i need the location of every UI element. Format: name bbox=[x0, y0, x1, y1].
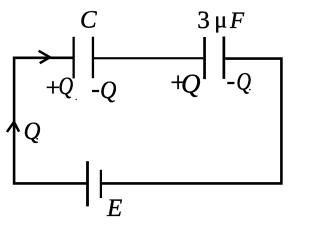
battery E right plate bbox=[100, 170, 102, 198]
svg-text:C: C bbox=[80, 6, 97, 33]
capacitor C1 right plate bbox=[92, 37, 94, 78]
speck at C2 right plate -Q tail end bbox=[249, 89, 251, 91]
speck at C1 right plate -Q tail end bbox=[114, 100, 115, 101]
label Q (charge on left branch wire) bbox=[24, 117, 41, 145]
svg-text:Q: Q bbox=[59, 72, 74, 99]
speck at side Q tail end bbox=[36, 138, 38, 140]
svg-text:Q: Q bbox=[24, 117, 41, 145]
battery E left plate bbox=[86, 161, 89, 206]
capacitor C1 left plate bbox=[73, 37, 75, 79]
svg-text:F: F bbox=[229, 8, 245, 33]
capacitor C2 left plate bbox=[203, 37, 206, 79]
svg-text:-: - bbox=[227, 66, 236, 95]
wire left + top-left + bottom-left segment bbox=[14, 58, 86, 184]
svg-text:Q: Q bbox=[181, 69, 201, 99]
svg-text:-: - bbox=[91, 74, 100, 103]
arrow current direction right on top wire bbox=[40, 51, 50, 62]
svg-text:μ: μ bbox=[214, 8, 227, 34]
wire top-right + right + bottom-right segment bbox=[102, 59, 282, 184]
svg-text:3: 3 bbox=[197, 7, 210, 34]
speck at C1 left plate +Q tail end bbox=[76, 99, 77, 100]
svg-text:Q: Q bbox=[236, 68, 251, 95]
arrow current direction up on left wire bbox=[8, 122, 19, 131]
wire middle top segment bbox=[94, 57, 203, 59]
svg-text:E: E bbox=[106, 195, 122, 222]
capacitor C2 right plate bbox=[223, 37, 226, 79]
